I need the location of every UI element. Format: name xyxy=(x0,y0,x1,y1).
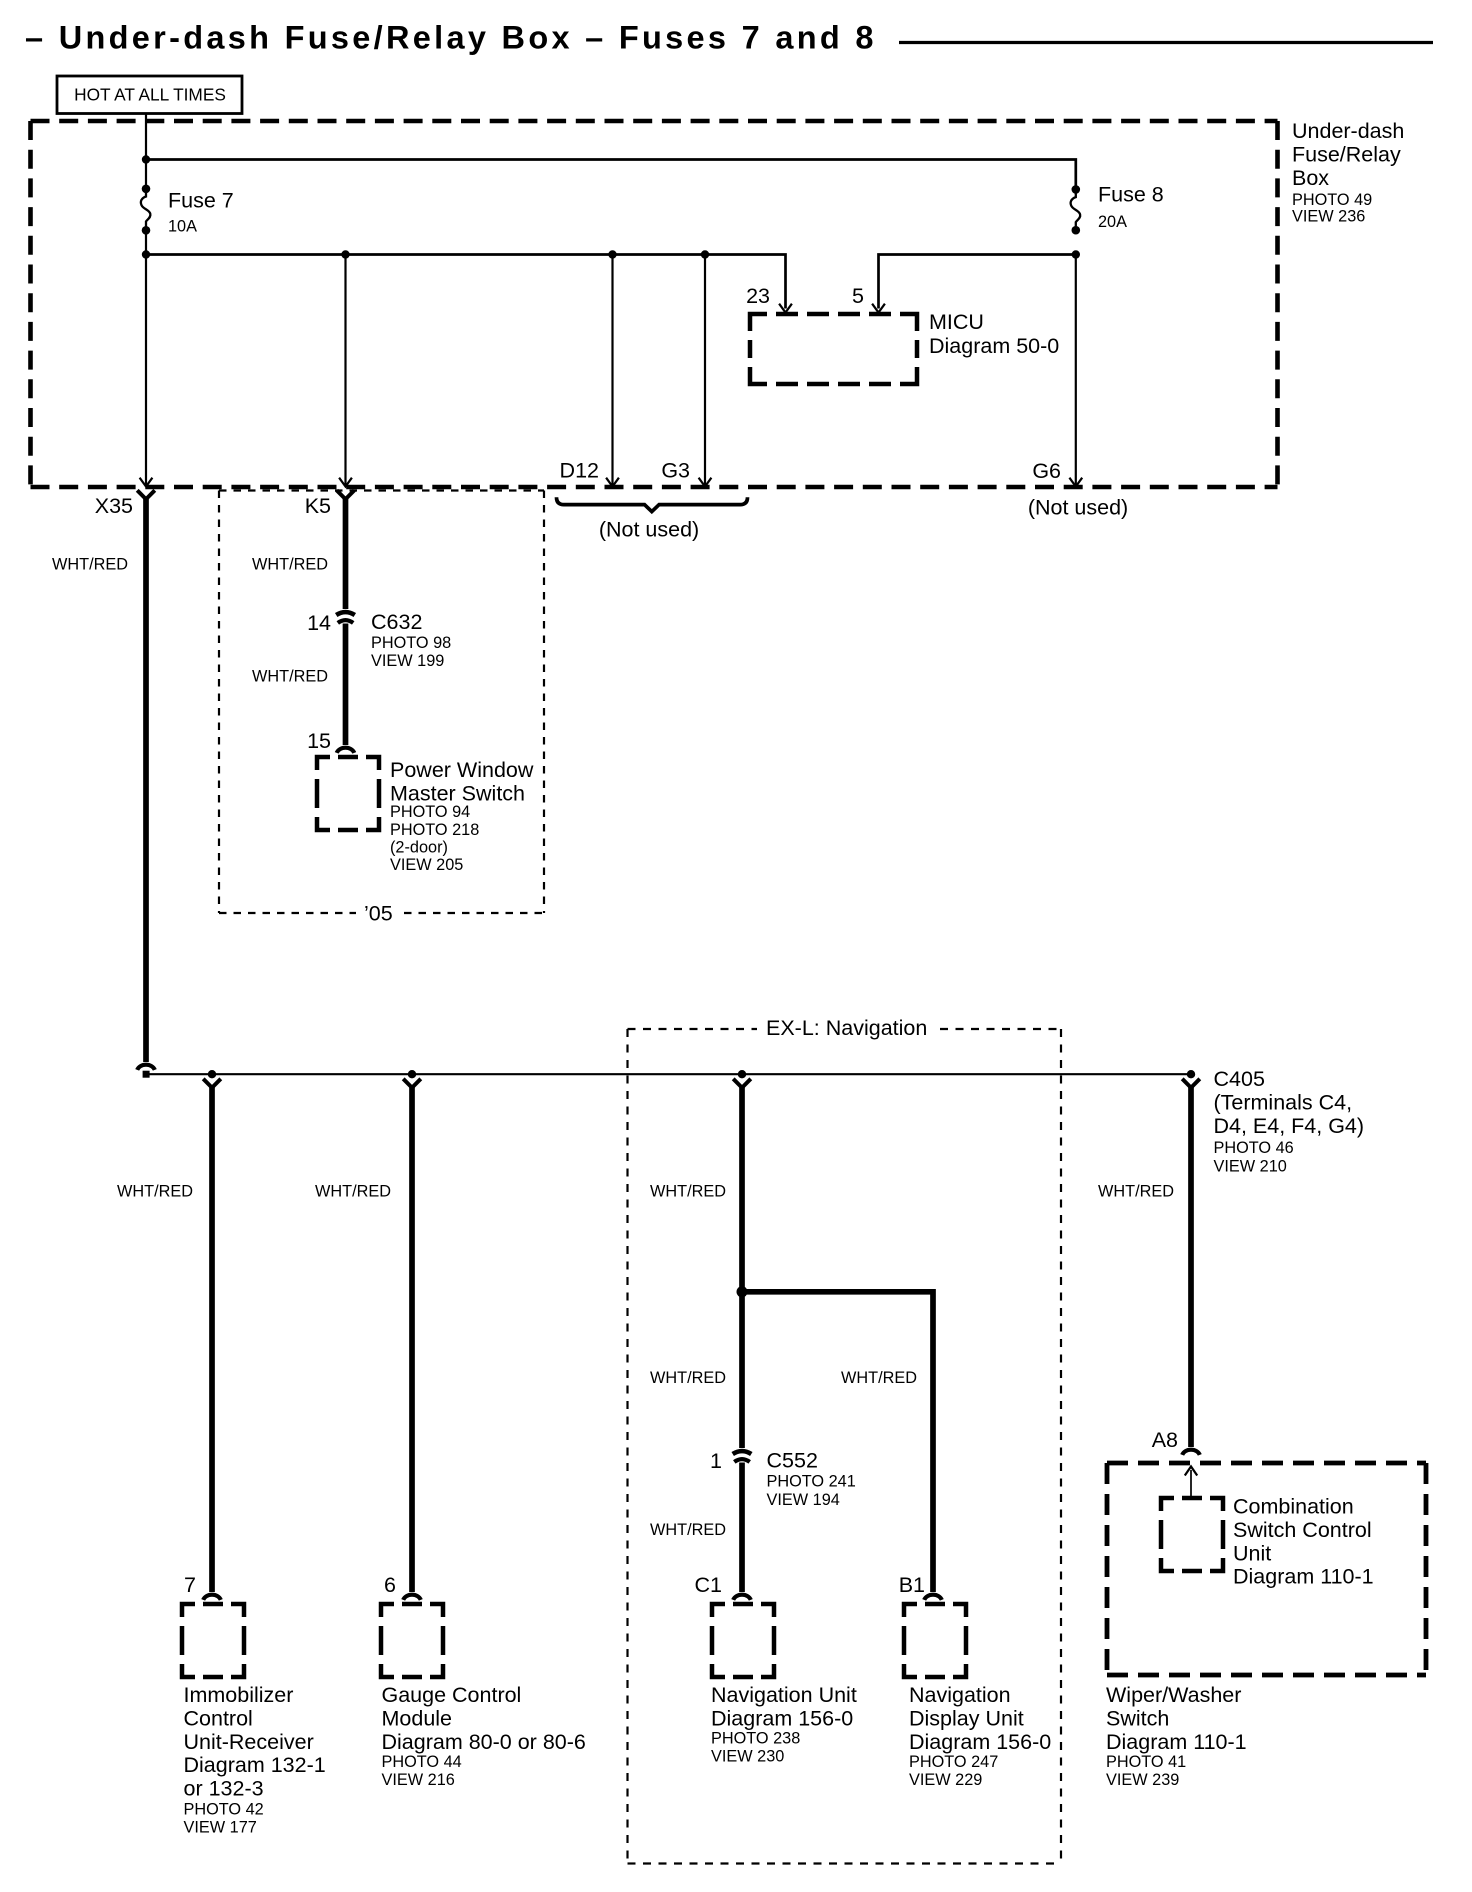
label WHT/RED (X35 wire) xyxy=(52,556,128,574)
svg-text:(Not used): (Not used) xyxy=(1028,496,1128,520)
wire lower bus from MICU pin 5 corner to fuse 8 xyxy=(879,255,1076,309)
svg-text:15: 15 xyxy=(307,729,331,753)
svg-text:VIEW 229: VIEW 229 xyxy=(909,1771,982,1789)
label '05 xyxy=(364,902,393,926)
svg-text:Power Window: Power Window xyxy=(390,758,534,782)
svg-text:C405: C405 xyxy=(1214,1067,1265,1091)
svg-text:D4, E4, F4, G4): D4, E4, F4, G4) xyxy=(1214,1114,1365,1138)
svg-text:PHOTO 46: PHOTO 46 xyxy=(1214,1139,1294,1157)
pin B1 label xyxy=(899,1573,925,1597)
label WHT/RED (K5 wire) xyxy=(252,556,328,574)
svg-text:(2-door): (2-door) xyxy=(390,839,448,857)
wire G3 feed xyxy=(699,255,712,487)
svg-text:PHOTO 238: PHOTO 238 xyxy=(711,1729,800,1747)
svg-text:20A: 20A xyxy=(1098,213,1127,231)
svg-text:EX-L: Navigation: EX-L: Navigation xyxy=(766,1016,927,1040)
Gauge Control Module (dashed box) xyxy=(381,1604,586,1789)
title rule line xyxy=(899,41,1433,44)
svg-text:Navigation Unit: Navigation Unit xyxy=(711,1683,857,1707)
wire K5 WHT/RED down to C632 xyxy=(343,497,349,610)
connector branch to Wiper/Washer xyxy=(1182,1079,1200,1087)
svg-text:Box: Box xyxy=(1292,166,1329,190)
connector C552 pin 1 xyxy=(710,1449,856,1509)
junction square dot X35 to bus xyxy=(143,1071,150,1078)
svg-text:VIEW 205: VIEW 205 xyxy=(390,856,463,874)
pin 5 label xyxy=(852,284,864,308)
wire lower bus from fuse 7 to MICU pin 23 corner xyxy=(146,255,786,309)
svg-text:WHT/RED: WHT/RED xyxy=(252,556,328,574)
pin C1 label xyxy=(695,1573,722,1597)
svg-text:WHT/RED: WHT/RED xyxy=(650,1521,726,1539)
EX-L: Navigation enclosure (dotted) xyxy=(628,1029,1062,1864)
wire WHT/RED C552 to Navigation Unit xyxy=(739,1463,745,1593)
Wiper/Washer Switch enclosure (dashed box) xyxy=(1107,1463,1426,1675)
svg-text:’05: ’05 xyxy=(364,902,393,926)
label: Under-dash Fuse/Relay Box PHOTO 49 VIEW 236 xyxy=(1292,119,1404,225)
svg-text:(Not used): (Not used) xyxy=(599,518,699,542)
wire WHT/RED nav branch upper xyxy=(739,1086,745,1448)
connector branch to Navigation Unit xyxy=(733,1079,751,1087)
connector branch to Immobilizer xyxy=(203,1079,221,1087)
connector X35 terminal symbol xyxy=(137,490,155,498)
svg-text:Diagram 110-1: Diagram 110-1 xyxy=(1233,1565,1374,1589)
svg-text:Master Switch: Master Switch xyxy=(390,781,525,805)
pin 23 label xyxy=(746,284,770,308)
svg-text:Wiper/Washer: Wiper/Washer xyxy=(1106,1683,1241,1707)
Combination Switch Control Unit (dashed box) xyxy=(1161,1495,1374,1589)
label WHT/RED (below C552) xyxy=(650,1521,726,1539)
svg-text:VIEW 236: VIEW 236 xyxy=(1292,207,1365,225)
connector arch into Navigation Display Unit xyxy=(924,1595,942,1600)
svg-text:PHOTO 42: PHOTO 42 xyxy=(184,1800,264,1818)
junction dot nav split xyxy=(737,1286,748,1297)
svg-text:K5: K5 xyxy=(305,494,331,518)
svg-text:WHT/RED: WHT/RED xyxy=(841,1369,917,1387)
fuse Fuse 8 20A xyxy=(1071,183,1164,235)
title: Under-dash Fuse/Relay Box - Fuses 7 and 8 xyxy=(25,20,877,56)
svg-text:PHOTO 41: PHOTO 41 xyxy=(1106,1753,1186,1771)
svg-text:23: 23 xyxy=(746,284,770,308)
brace (Not used) for D12/G3 xyxy=(557,497,748,541)
svg-text:Switch Control: Switch Control xyxy=(1233,1518,1372,1542)
wire WHT/RED to Wiper/Washer xyxy=(1188,1086,1194,1447)
fuse Fuse 7 10A xyxy=(141,185,234,236)
svg-text:HOT AT ALL TIMES: HOT AT ALL TIMES xyxy=(74,85,226,105)
pin A8 label xyxy=(1152,1428,1178,1452)
Power Window Master Switch (dashed box) xyxy=(317,757,534,874)
node K5 xyxy=(305,494,331,518)
'05 variant enclosure (dotted) xyxy=(219,491,544,914)
svg-text:X35: X35 xyxy=(95,494,133,518)
Immobilizer Control Unit-Receiver (dashed box) xyxy=(182,1604,326,1836)
svg-text:PHOTO 49: PHOTO 49 xyxy=(1292,191,1372,209)
svg-text:A8: A8 xyxy=(1152,1428,1178,1452)
label WHT/RED (nav wire lower) xyxy=(650,1369,726,1387)
svg-text:WHT/RED: WHT/RED xyxy=(117,1183,193,1201)
svg-text:Diagram 156-0: Diagram 156-0 xyxy=(909,1730,1051,1754)
svg-text:PHOTO 241: PHOTO 241 xyxy=(767,1473,856,1491)
svg-text:Unit: Unit xyxy=(1233,1541,1271,1565)
junction dots on C405 bus xyxy=(208,1070,1195,1078)
label WHT/RED (Wiper wire) xyxy=(1098,1183,1174,1201)
MICU Diagram 50-0 (dashed box) xyxy=(750,310,1059,384)
svg-text:C632: C632 xyxy=(371,610,422,634)
wire WHT/RED C632 to Power Window Master Switch xyxy=(343,624,349,746)
label (Not used) for G6 xyxy=(1028,496,1128,520)
connector C632 pins 14/15 xyxy=(307,610,451,670)
junction dot at fuse 7 top bus xyxy=(142,155,150,163)
label WHT/RED (below C632) xyxy=(252,668,328,686)
wire from HOT AT ALL TIMES down into box xyxy=(145,114,147,185)
svg-text:14: 14 xyxy=(307,611,331,635)
connector arch into Power Window Master Switch xyxy=(337,748,355,753)
Navigation Display Unit (dashed box) xyxy=(904,1604,1051,1789)
connector arch at X35 wire end xyxy=(137,1065,155,1070)
svg-text:7: 7 xyxy=(184,1573,196,1597)
svg-text:MICU: MICU xyxy=(929,310,984,334)
svg-text:VIEW 216: VIEW 216 xyxy=(382,1771,455,1789)
pin 7 label xyxy=(184,1573,196,1597)
svg-text:D12: D12 xyxy=(560,459,599,483)
arrow from box edge to Combination Switch Control Unit xyxy=(1185,1467,1197,1498)
svg-text:Display Unit: Display Unit xyxy=(909,1706,1024,1730)
wire to Navigation Display Unit (B1 branch) xyxy=(744,1292,933,1592)
svg-text:B1: B1 xyxy=(899,1573,925,1597)
svg-text:Fuse 7: Fuse 7 xyxy=(168,189,234,213)
node HOT AT ALL TIMES xyxy=(57,76,242,114)
label C405 (Terminals C4, D4, E4, F4, G4) xyxy=(1214,1067,1365,1175)
label WHT/RED (B1 branch) xyxy=(841,1369,917,1387)
node G6 xyxy=(1032,459,1061,483)
svg-text:WHT/RED: WHT/RED xyxy=(650,1369,726,1387)
svg-text:C1: C1 xyxy=(695,1573,722,1597)
svg-text:WHT/RED: WHT/RED xyxy=(1098,1183,1174,1201)
svg-text:Fuse/Relay: Fuse/Relay xyxy=(1292,142,1401,166)
pin 6 label xyxy=(384,1573,396,1597)
svg-text:WHT/RED: WHT/RED xyxy=(252,668,328,686)
wire G6 feed xyxy=(1069,255,1082,487)
label WHT/RED (nav wire upper) xyxy=(650,1183,726,1201)
wire top bus from fuse 7 node to fuse 8 xyxy=(146,160,1076,186)
pin 15 label xyxy=(307,729,331,753)
svg-text:VIEW 177: VIEW 177 xyxy=(184,1818,257,1836)
connector branch to Gauge Control Module xyxy=(403,1079,421,1087)
wire X35 feed xyxy=(140,230,153,486)
svg-text:C552: C552 xyxy=(767,1449,818,1473)
connector arch into Gauge Control Module xyxy=(403,1595,421,1600)
svg-text:VIEW 239: VIEW 239 xyxy=(1106,1771,1179,1789)
svg-text:Control: Control xyxy=(184,1706,253,1730)
svg-text:5: 5 xyxy=(852,284,864,308)
svg-text:Unit-Receiver: Unit-Receiver xyxy=(184,1730,314,1754)
label Wiper/Washer Switch Diagram 110-1 xyxy=(1106,1683,1247,1789)
svg-text:WHT/RED: WHT/RED xyxy=(650,1183,726,1201)
svg-text:Combination: Combination xyxy=(1233,1495,1354,1519)
svg-text:1: 1 xyxy=(710,1449,722,1473)
node D12 xyxy=(560,459,599,483)
svg-text:Diagram 110-1: Diagram 110-1 xyxy=(1106,1730,1247,1754)
svg-text:G6: G6 xyxy=(1032,459,1061,483)
junction dots on lower bus xyxy=(142,250,1080,258)
connector arch into Navigation Unit xyxy=(733,1595,751,1600)
svg-text:6: 6 xyxy=(384,1573,396,1597)
label WHT/RED (Immobilizer wire) xyxy=(117,1183,193,1201)
arrow into MICU pin 23 xyxy=(779,304,792,313)
svg-text:Immobilizer: Immobilizer xyxy=(184,1683,294,1707)
svg-text:Diagram 80-0 or 80-6: Diagram 80-0 or 80-6 xyxy=(382,1730,586,1754)
svg-text:Navigation: Navigation xyxy=(909,1683,1011,1707)
Under-dash Fuse/Relay Box enclosure (dashed) xyxy=(31,121,1278,487)
Navigation Unit (dashed box) xyxy=(711,1604,857,1765)
wire WHT/RED to Immobilizer xyxy=(209,1086,215,1592)
label EX-L: Navigation xyxy=(766,1016,927,1040)
svg-text:– Under-dash Fuse/Relay Box –: – Under-dash Fuse/Relay Box – Fuses 7 an… xyxy=(25,20,877,56)
svg-text:Gauge Control: Gauge Control xyxy=(382,1683,522,1707)
connector arch into Immobilizer xyxy=(203,1595,221,1600)
label WHT/RED (Gauge wire) xyxy=(315,1183,391,1201)
svg-text:VIEW 230: VIEW 230 xyxy=(711,1747,784,1765)
svg-text:WHT/RED: WHT/RED xyxy=(52,556,128,574)
wire C405 bus xyxy=(146,1073,1191,1075)
svg-text:Diagram 156-0: Diagram 156-0 xyxy=(711,1706,853,1730)
connector K5 terminal symbol xyxy=(337,490,355,498)
svg-text:VIEW 199: VIEW 199 xyxy=(371,652,444,670)
wire WHT/RED to Gauge Control Module xyxy=(409,1086,415,1592)
node G3 xyxy=(661,459,690,483)
svg-text:PHOTO 44: PHOTO 44 xyxy=(382,1753,462,1771)
svg-text:(Terminals C4,: (Terminals C4, xyxy=(1214,1090,1353,1114)
wire X35 WHT/RED down to C405 bus xyxy=(143,497,149,1063)
arrow into MICU pin 5 xyxy=(872,304,885,313)
wire K5 feed xyxy=(339,255,352,487)
svg-text:PHOTO 247: PHOTO 247 xyxy=(909,1753,998,1771)
svg-text:10A: 10A xyxy=(168,218,197,236)
svg-text:VIEW 194: VIEW 194 xyxy=(767,1491,840,1509)
svg-text:PHOTO 98: PHOTO 98 xyxy=(371,634,451,652)
svg-text:or 132-3: or 132-3 xyxy=(184,1777,264,1801)
svg-text:PHOTO 94: PHOTO 94 xyxy=(390,803,470,821)
svg-text:G3: G3 xyxy=(661,459,690,483)
node X35 xyxy=(95,494,133,518)
svg-text:Diagram 50-0: Diagram 50-0 xyxy=(929,334,1059,358)
wire D12 feed xyxy=(606,255,619,487)
connector arch A8 into Wiper/Washer Switch xyxy=(1182,1450,1200,1455)
svg-text:Switch: Switch xyxy=(1106,1706,1169,1730)
svg-text:WHT/RED: WHT/RED xyxy=(315,1183,391,1201)
svg-text:VIEW 210: VIEW 210 xyxy=(1214,1157,1287,1175)
svg-text:Diagram 132-1: Diagram 132-1 xyxy=(184,1753,326,1777)
svg-text:Fuse 8: Fuse 8 xyxy=(1098,183,1164,207)
svg-text:PHOTO 218: PHOTO 218 xyxy=(390,821,479,839)
svg-text:Module: Module xyxy=(382,1706,453,1730)
svg-text:Under-dash: Under-dash xyxy=(1292,119,1404,143)
